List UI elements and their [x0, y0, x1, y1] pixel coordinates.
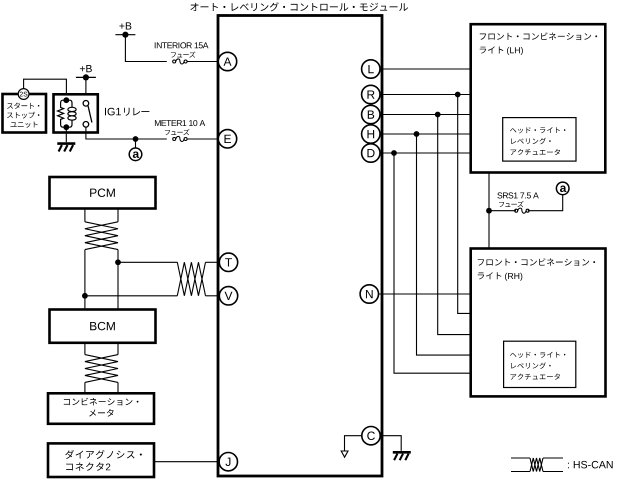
wire +B2 to relay switch	[85, 77, 87, 101]
+B supply 2	[76, 65, 96, 80]
connector 2S	[18, 89, 29, 100]
wire diagnosis to pin J	[154, 461, 220, 463]
floating ground triangle	[341, 451, 348, 457]
label fuse1	[171, 51, 196, 57]
label fuse2	[165, 129, 190, 135]
LH light label	[480, 32, 597, 55]
fuse INTERIOR 15A	[173, 59, 187, 64]
LH actuator label	[510, 127, 565, 155]
diagnosis connector 2 box	[48, 443, 154, 477]
wire twist to V	[206, 295, 221, 297]
BCM box	[50, 310, 156, 343]
twisted pair PCM-BCM	[85, 222, 118, 250]
relay switch	[83, 101, 92, 128]
junction SRS branch	[486, 208, 492, 214]
wire pin C to chassis ground	[380, 436, 401, 451]
wire junction to node a1	[135, 139, 137, 148]
fuse SRS1 7.5A	[515, 208, 529, 213]
wire relay switch to pin E	[86, 127, 167, 139]
terminal V	[219, 287, 237, 305]
relay IG1 box	[54, 94, 98, 132]
wire LH lamp down to RH lamp	[488, 173, 490, 249]
wire pair to BCM	[85, 250, 118, 310]
terminal D	[362, 144, 380, 162]
terminal C	[362, 427, 380, 445]
wire CAN-L to twist	[85, 295, 177, 297]
ground relay coil	[57, 144, 75, 152]
wire BCM down pair	[85, 343, 118, 355]
wire pin B to LH lamp	[380, 114, 471, 116]
wire pin L to LH lamp	[380, 68, 471, 70]
terminal J	[219, 453, 237, 471]
relay IG1 label	[105, 108, 149, 116]
fuse METER1 10A	[173, 136, 187, 141]
junction R branch	[455, 92, 461, 98]
wire pin D to LH lamp	[380, 152, 471, 154]
label fuse3	[499, 201, 524, 207]
junction node a1	[133, 136, 139, 142]
PCM box	[50, 177, 156, 209]
RH leveling actuator box	[504, 341, 576, 387]
junction B branch	[435, 112, 441, 118]
ground chassis C	[393, 452, 411, 460]
junction D branch	[391, 150, 397, 156]
terminal L	[362, 60, 380, 78]
junction CAN-L	[82, 293, 88, 299]
wire pin R to LH lamp	[380, 94, 471, 96]
combination meter label	[64, 398, 139, 417]
+B supply 1	[115, 22, 135, 37]
wire 2S to relay coil	[24, 79, 67, 100]
wire fuse2 to pin E	[188, 138, 220, 140]
terminal B	[362, 105, 380, 123]
terminal A	[218, 52, 236, 70]
node a1 circle	[129, 148, 142, 161]
diagnosis connector 2 label	[65, 450, 142, 471]
start-stop unit label	[7, 103, 39, 128]
BCM label	[90, 322, 115, 330]
wire twist to T	[206, 261, 221, 263]
relay coil	[58, 97, 77, 130]
wire pin C to floating ground	[345, 436, 363, 451]
PCM label	[90, 189, 115, 197]
wire H branch to RH lamp	[417, 134, 471, 355]
legend HS-CAN label	[568, 461, 613, 469]
wire fuse3 to node a2	[528, 195, 563, 210]
module title label	[190, 2, 408, 11]
wire coil to ground	[65, 130, 67, 143]
wire D branch to RH lamp	[394, 153, 471, 373]
node a2 circle	[556, 182, 569, 195]
label SRS1 7.5 A	[497, 192, 538, 198]
junction H branch	[414, 131, 420, 137]
junction CAN-H	[115, 259, 121, 265]
auto leveling control module U1 box	[218, 16, 382, 477]
label INTERIOR 15A	[155, 42, 209, 48]
terminal E	[218, 130, 236, 148]
label METER1 10 A	[155, 120, 205, 126]
wire +B1 to fuse	[125, 35, 166, 62]
wire fuse to pin A	[188, 61, 220, 63]
wire pin N to RH lamp	[379, 293, 471, 295]
terminal R	[362, 85, 380, 103]
LH leveling actuator box	[503, 118, 576, 162]
front combination light LH box	[471, 24, 606, 172]
twisted pair BCM-meter	[85, 355, 118, 383]
wire B branch to RH lamp	[438, 115, 471, 335]
front combination light RH box	[471, 249, 606, 397]
terminal T	[219, 253, 237, 271]
wire pair to meter	[85, 382, 118, 393]
wire R branch to RH lamp	[458, 95, 471, 314]
terminal N	[360, 285, 378, 303]
wire SRS branch to fuse	[489, 210, 516, 212]
wire PCM down pair	[85, 209, 118, 222]
twisted pair to T V	[177, 262, 205, 296]
terminal H	[362, 125, 380, 143]
RH actuator label	[510, 352, 565, 380]
start-stop unit box	[3, 94, 47, 133]
RH light label	[478, 258, 595, 281]
wire CAN-H to twist	[118, 261, 177, 263]
combination meter box	[48, 393, 154, 424]
wire pin H to LH lamp	[380, 133, 471, 135]
legend HS-CAN twisted pair symbol	[511, 458, 563, 472]
